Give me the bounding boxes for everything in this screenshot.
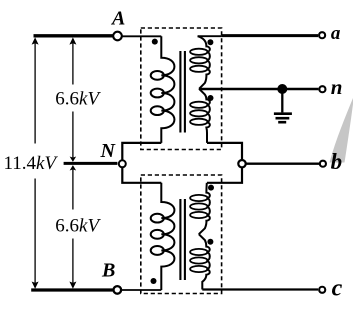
- transformer T2 core: [179, 199, 181, 280]
- terminal c: [319, 287, 325, 293]
- dashed enclosure transformer T2: [141, 175, 222, 294]
- terminal N: [119, 160, 126, 167]
- wire n tap line: [199, 88, 318, 90]
- node N branch upper: [122, 143, 161, 160]
- wire a-line thick: [222, 34, 319, 37]
- terminal B: [114, 286, 122, 294]
- terminal A: [113, 32, 122, 41]
- polarity dot T1 primary: [152, 39, 158, 45]
- terminal a: [319, 32, 325, 38]
- node N branch lower: [122, 168, 161, 183]
- svg-text:A: A: [110, 8, 125, 30]
- transformer T2 secondary lower half: [190, 234, 210, 289]
- dimension line 6.6kV lower: [72, 167, 74, 287]
- ground junction dot: [277, 84, 287, 94]
- svg-text:n: n: [331, 75, 343, 99]
- wire B to T2 primary thin: [122, 289, 161, 291]
- polarity dot T2 secondary top: [208, 185, 214, 191]
- wire node R to T2 secondary top: [207, 168, 242, 183]
- wire B thick: [31, 288, 113, 291]
- grey page-curl artifact right edge: [330, 98, 353, 163]
- polarity dot T1 secondary top: [207, 39, 213, 45]
- dashed enclosure transformer T1: [141, 28, 222, 150]
- svg-text:6.6kV: 6.6kV: [55, 216, 101, 237]
- svg-text:a: a: [331, 23, 341, 44]
- svg-text:b: b: [331, 149, 343, 174]
- transformer T2 secondary upper half: [190, 183, 210, 234]
- wire A-line thick: [34, 34, 113, 37]
- polarity dot T2 primary: [151, 278, 157, 284]
- dimension line 11.4kV: [34, 39, 36, 287]
- terminal n: [319, 86, 325, 92]
- transformer T1 primary winding: [151, 36, 175, 143]
- wire A to T1 primary thin: [122, 35, 161, 37]
- ground: [274, 89, 292, 122]
- svg-text:B: B: [101, 260, 115, 282]
- wire T1 secondary bottom to node R: [207, 143, 242, 160]
- svg-text:11.4kV: 11.4kV: [4, 153, 59, 174]
- transformer T1 secondary lower half: [190, 89, 210, 143]
- wire c-line: [202, 288, 318, 290]
- svg-text:N: N: [100, 140, 117, 162]
- node R junction circle: [238, 160, 245, 167]
- svg-text:6.6kV: 6.6kV: [55, 89, 101, 110]
- svg-text:c: c: [332, 275, 343, 301]
- terminal b: [320, 161, 326, 167]
- polarity dot T2 secondary mid: [207, 239, 213, 245]
- wire a-line inside box: [198, 35, 222, 37]
- transformer T1 secondary upper half: [190, 36, 210, 89]
- wire N thick line: [64, 162, 118, 165]
- polarity dot T1 secondary mid: [208, 95, 214, 101]
- wire b-line: [246, 162, 319, 164]
- dimension line 6.6kV upper: [72, 39, 74, 160]
- transformer T1 core: [179, 51, 181, 133]
- transformer T2 primary winding: [151, 183, 175, 290]
